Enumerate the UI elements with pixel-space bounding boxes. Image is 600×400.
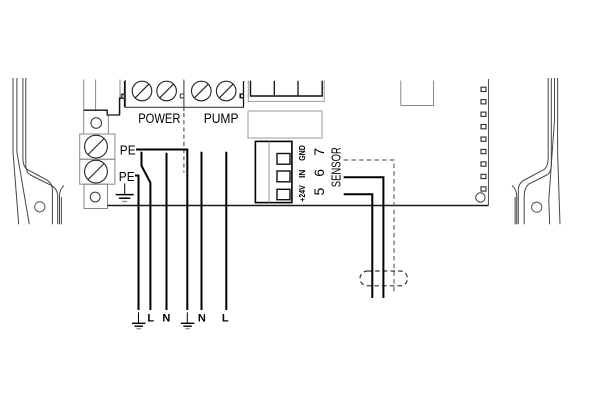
POWER/PUMP terminal bracket: [122, 80, 244, 111]
sensor terminal block: [255, 141, 292, 202]
PUMP screw 2: [216, 81, 236, 101]
PE wire top (to pump ground): [136, 150, 187, 311]
chassis ground symbol: [116, 183, 134, 201]
left strip bottom box: [84, 184, 108, 208]
left terminal strip latch step: [84, 81, 125, 115]
svg-text:N: N: [162, 312, 170, 324]
svg-text:5: 5: [311, 187, 327, 195]
PE wire bottom (to supply ground): [135, 176, 139, 311]
left terminal strip top rails: [84, 80, 120, 135]
left wall cable hole: [35, 202, 45, 212]
POWER screw 2: [157, 81, 177, 101]
left strip small box upper: [91, 118, 102, 129]
connector left bracket: [241, 81, 244, 107]
sensor wire terminal 5: [344, 194, 373, 298]
pump wire L: [225, 152, 227, 310]
enclosure bottom edge: [108, 205, 489, 207]
sensor wire terminal 6: [344, 177, 384, 298]
pump connector inner: [251, 81, 323, 96]
PCB pad column: [481, 87, 486, 191]
pump connector pin dividers: [274, 81, 298, 96]
svg-text:L: L: [222, 312, 229, 324]
svg-text:+24V: +24V: [298, 185, 307, 202]
svg-text:7: 7: [311, 148, 327, 156]
right enclosure wall curves: [512, 78, 560, 224]
svg-text:GND: GND: [298, 145, 307, 161]
PE screw box 2: [80, 159, 115, 184]
svg-text:6: 6: [311, 169, 327, 177]
svg-text:PE: PE: [120, 143, 136, 158]
svg-text:PUMP: PUMP: [204, 111, 239, 126]
POWER screw 1: [132, 81, 152, 101]
left enclosure wall curves: [13, 78, 64, 224]
svg-text:IN: IN: [298, 169, 307, 178]
dashed cable clamp capsule: [360, 271, 408, 286]
right open box: [401, 81, 434, 106]
supply ground symbol: [132, 312, 146, 328]
svg-text:L: L: [147, 312, 154, 324]
pump ground symbol: [181, 312, 195, 328]
gray module box below connector: [248, 111, 322, 138]
right wall cable hole: [532, 202, 542, 212]
svg-text:PE: PE: [119, 169, 135, 184]
PE screw box 1: [80, 134, 115, 159]
power wire N: [166, 153, 168, 310]
PUMP screw 1: [192, 81, 212, 101]
pump connector outer shell: [248, 81, 324, 102]
enclosure right edge: [488, 79, 490, 206]
PCB mounting hole: [476, 193, 485, 202]
dashed divider POWER/PUMP: [183, 113, 185, 173]
power wire L: [142, 152, 151, 310]
svg-text:POWER: POWER: [138, 111, 180, 126]
pump wire N: [201, 152, 203, 310]
dashed sensor cable boundary: [344, 160, 394, 294]
svg-text:SENSOR: SENSOR: [330, 147, 344, 187]
svg-text:N: N: [198, 312, 206, 324]
